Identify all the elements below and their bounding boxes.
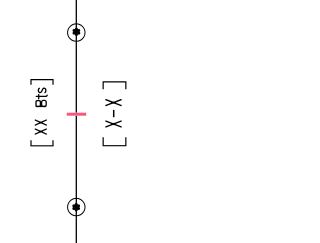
label right: glyph hyphen (rotated) [113,110,115,117]
label left: bracket bottom [31,140,53,146]
label right: bracket top [103,82,126,89]
label right: bracket bottom [103,137,126,146]
label left: glyph t (rotated) [36,95,47,99]
tick mark (pink) on wire [67,113,87,116]
label right: glyph X (rotated) [106,100,121,106]
node: top junction dot cluster [73,28,81,36]
node: bottom junction dot cluster [72,203,80,211]
label left: glyph B (rotated) [36,100,47,106]
label right: glyph X (rotated) [106,121,121,127]
label left: glyph s (rotated) [38,88,45,92]
node: top junction circle [68,24,85,41]
label left: glyph X (rotated) [35,120,46,125]
label left: glyph X (rotated) [35,129,46,134]
node: bottom junction circle [68,198,85,215]
wire: vertical feeder line [75,0,77,243]
label left: bracket top [31,80,53,85]
